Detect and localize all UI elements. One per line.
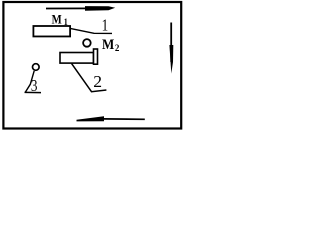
pointer line 2 [72,64,107,92]
svg-text:M: M [52,13,62,27]
block 2 end plate [94,49,98,64]
label M2 [102,37,120,53]
arrow bottom (leftward) [77,116,145,121]
svg-text:2: 2 [115,43,120,53]
ball M2 [83,39,91,47]
block M1 [33,26,70,36]
svg-text:1: 1 [102,16,109,35]
arrow right (downward) [169,23,173,74]
ball 3 [33,64,40,71]
border frame [3,2,181,129]
label M1 [52,13,68,28]
svg-text:M: M [102,37,115,53]
pointer line 1 [71,29,112,34]
block 2 body [60,53,94,64]
svg-text:3: 3 [31,76,38,95]
pointer line 3 [25,71,42,93]
svg-text:2: 2 [93,72,102,91]
arrow top (rightward) [46,6,115,11]
